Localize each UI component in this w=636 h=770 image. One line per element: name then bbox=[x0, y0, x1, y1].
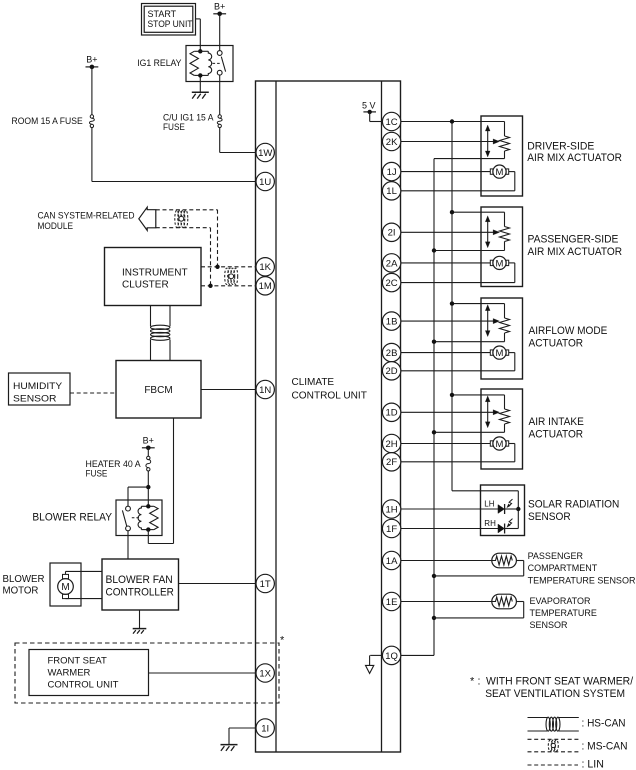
svg-text:TEMPERATURE SENSOR: TEMPERATURE SENSOR bbox=[528, 576, 636, 586]
svg-text:: HS-CAN: : HS-CAN bbox=[582, 718, 626, 730]
svg-text:ACTUATOR: ACTUATOR bbox=[529, 337, 584, 349]
svg-text:2K: 2K bbox=[386, 137, 398, 148]
svg-text:SENSOR: SENSOR bbox=[528, 511, 571, 523]
svg-text:1T: 1T bbox=[260, 579, 271, 590]
svg-text:1M: 1M bbox=[259, 281, 272, 292]
svg-text:AIR MIX ACTUATOR: AIR MIX ACTUATOR bbox=[528, 246, 623, 258]
svg-text:2C: 2C bbox=[386, 278, 398, 289]
svg-text:M: M bbox=[496, 258, 504, 269]
svg-text:ROOM 15 A FUSE: ROOM 15 A FUSE bbox=[12, 116, 83, 126]
svg-text:1E: 1E bbox=[386, 597, 398, 608]
svg-text:CLIMATE: CLIMATE bbox=[292, 377, 335, 388]
svg-text:B+: B+ bbox=[143, 436, 154, 446]
svg-text:1F: 1F bbox=[386, 524, 397, 535]
svg-text:2B: 2B bbox=[386, 348, 398, 359]
svg-text:CAN SYSTEM-RELATED: CAN SYSTEM-RELATED bbox=[38, 211, 135, 221]
svg-text:START: START bbox=[148, 9, 177, 19]
svg-text:*: * bbox=[470, 676, 475, 688]
svg-text:B+: B+ bbox=[214, 2, 225, 12]
svg-text:SENSOR: SENSOR bbox=[13, 394, 57, 405]
svg-text:TEMPERATURE: TEMPERATURE bbox=[530, 608, 597, 618]
svg-text:BLOWER RELAY: BLOWER RELAY bbox=[32, 512, 112, 524]
svg-text:DRIVER-SIDE: DRIVER-SIDE bbox=[527, 141, 594, 153]
svg-text:PASSENGER-SIDE: PASSENGER-SIDE bbox=[528, 233, 619, 245]
svg-text:HEATER 40 A: HEATER 40 A bbox=[86, 459, 141, 469]
svg-text:SENSOR: SENSOR bbox=[530, 620, 569, 630]
svg-text:AIRFLOW MODE: AIRFLOW MODE bbox=[529, 325, 608, 337]
svg-text:1D: 1D bbox=[386, 408, 398, 419]
svg-text:1U: 1U bbox=[259, 177, 271, 188]
svg-text:: MS-CAN: : MS-CAN bbox=[582, 741, 628, 753]
svg-text:CONTROLLER: CONTROLLER bbox=[106, 587, 175, 599]
svg-text:1N: 1N bbox=[259, 385, 271, 396]
svg-text:COMPARTMENT: COMPARTMENT bbox=[528, 563, 598, 573]
svg-text:1X: 1X bbox=[259, 668, 271, 679]
svg-text:M: M bbox=[496, 439, 504, 450]
svg-text:1K: 1K bbox=[259, 262, 271, 273]
svg-text:1L: 1L bbox=[386, 186, 397, 197]
svg-text:2I: 2I bbox=[388, 228, 396, 239]
svg-text:MOTOR: MOTOR bbox=[3, 586, 39, 597]
svg-text:EVAPORATOR: EVAPORATOR bbox=[530, 596, 592, 606]
svg-text:RH: RH bbox=[484, 519, 496, 528]
svg-text:1I: 1I bbox=[261, 723, 269, 734]
svg-text:INSTRUMENT: INSTRUMENT bbox=[122, 268, 188, 279]
svg-text:CLUSTER: CLUSTER bbox=[122, 280, 169, 291]
svg-text:2D: 2D bbox=[386, 366, 398, 377]
svg-text:2H: 2H bbox=[386, 439, 398, 450]
svg-text:FUSE: FUSE bbox=[163, 122, 185, 132]
svg-text:FBCM: FBCM bbox=[144, 385, 172, 396]
svg-text:B+: B+ bbox=[86, 55, 97, 65]
svg-text:PASSENGER: PASSENGER bbox=[528, 551, 584, 561]
svg-text:AIR INTAKE: AIR INTAKE bbox=[529, 416, 584, 428]
svg-text:M: M bbox=[496, 348, 504, 359]
svg-text:FRONT SEAT: FRONT SEAT bbox=[48, 655, 107, 666]
svg-text:5 V: 5 V bbox=[362, 101, 376, 111]
svg-text:BLOWER: BLOWER bbox=[3, 574, 45, 585]
svg-text:ACTUATOR: ACTUATOR bbox=[529, 428, 584, 440]
svg-text:AIR MIX ACTUATOR: AIR MIX ACTUATOR bbox=[527, 152, 622, 164]
svg-text:1Q: 1Q bbox=[385, 651, 398, 662]
svg-text:MODULE: MODULE bbox=[38, 221, 74, 231]
svg-text:CONTROL UNIT: CONTROL UNIT bbox=[292, 391, 367, 402]
svg-text:*: * bbox=[280, 635, 285, 647]
svg-text:M: M bbox=[61, 582, 69, 593]
svg-text:WARMER: WARMER bbox=[48, 667, 91, 678]
svg-text:: LIN: : LIN bbox=[582, 759, 604, 770]
svg-text:WITH FRONT SEAT WARMER/: WITH FRONT SEAT WARMER/ bbox=[486, 676, 633, 688]
svg-text:1B: 1B bbox=[386, 317, 398, 328]
svg-text:2F: 2F bbox=[386, 457, 397, 468]
svg-text:STOP UNIT: STOP UNIT bbox=[148, 19, 193, 29]
svg-text:C/U IG1 15 A: C/U IG1 15 A bbox=[163, 112, 214, 122]
svg-text:1W: 1W bbox=[258, 148, 272, 159]
svg-text:LH: LH bbox=[484, 500, 494, 509]
svg-text:SOLAR RADIATION: SOLAR RADIATION bbox=[528, 499, 619, 511]
svg-text:1A: 1A bbox=[386, 556, 398, 567]
svg-text:1J: 1J bbox=[387, 167, 397, 178]
svg-text:BLOWER FAN: BLOWER FAN bbox=[106, 574, 173, 586]
svg-text:1C: 1C bbox=[386, 117, 398, 128]
svg-text:1H: 1H bbox=[386, 504, 398, 515]
svg-text:M: M bbox=[496, 167, 504, 178]
svg-text:HUMIDITY: HUMIDITY bbox=[13, 381, 63, 392]
svg-text:CONTROL UNIT: CONTROL UNIT bbox=[48, 679, 119, 690]
svg-text::: : bbox=[478, 676, 481, 688]
svg-text:IG1 RELAY: IG1 RELAY bbox=[137, 58, 181, 68]
svg-text:SEAT VENTILATION SYSTEM: SEAT VENTILATION SYSTEM bbox=[485, 688, 625, 700]
svg-text:2A: 2A bbox=[386, 258, 398, 269]
svg-text:FUSE: FUSE bbox=[86, 469, 108, 479]
